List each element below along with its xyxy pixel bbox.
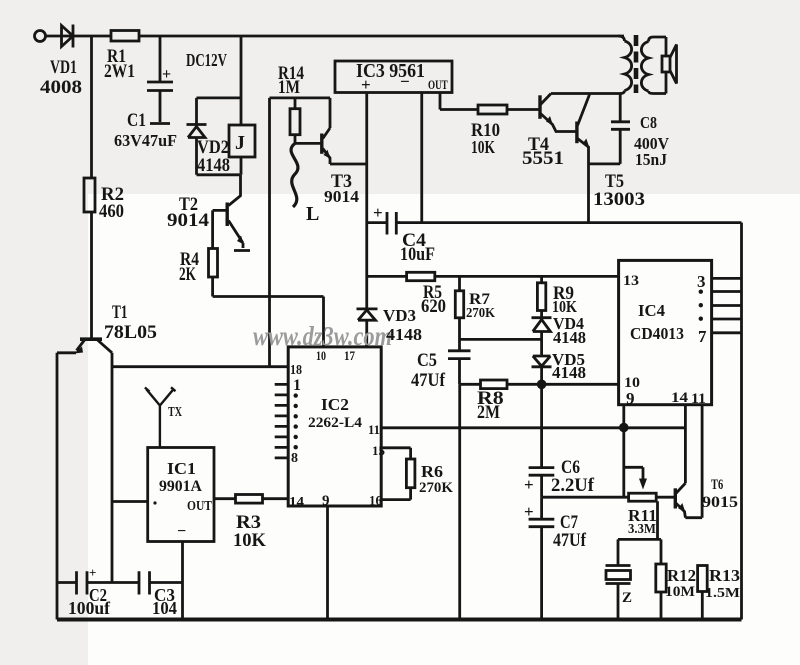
- svg-text:4008: 4008: [40, 77, 82, 98]
- svg-text:1.5M: 1.5M: [705, 586, 740, 601]
- svg-text:T1: T1: [112, 301, 128, 323]
- svg-text:270K: 270K: [419, 480, 453, 496]
- svg-text:16: 16: [369, 493, 382, 509]
- svg-text:11: 11: [368, 423, 380, 437]
- svg-text:−: −: [177, 523, 186, 540]
- svg-text:47Uf: 47Uf: [411, 369, 446, 390]
- svg-text:CD4013: CD4013: [630, 323, 684, 343]
- svg-text:15nJ: 15nJ: [635, 149, 667, 169]
- svg-text:L: L: [306, 203, 319, 225]
- svg-text:9: 9: [322, 493, 330, 509]
- svg-text:13003: 13003: [593, 189, 645, 210]
- svg-text:10K: 10K: [471, 138, 496, 157]
- svg-text:9015: 9015: [702, 493, 738, 511]
- svg-text:9: 9: [626, 389, 635, 408]
- svg-text:3.3M: 3.3M: [628, 520, 656, 536]
- svg-text:IC2: IC2: [321, 395, 349, 414]
- svg-text:T6: T6: [711, 475, 724, 492]
- svg-text:14: 14: [671, 390, 688, 406]
- svg-text:10M: 10M: [665, 583, 695, 600]
- svg-text:3: 3: [697, 272, 706, 291]
- svg-text:104: 104: [152, 598, 177, 618]
- svg-text:620: 620: [421, 295, 446, 316]
- svg-text:1: 1: [293, 377, 301, 394]
- svg-text:4148: 4148: [386, 324, 422, 343]
- svg-text:11: 11: [691, 390, 706, 407]
- svg-text:Z: Z: [622, 590, 632, 606]
- svg-text:R10: R10: [471, 119, 500, 140]
- svg-text:−: −: [400, 72, 410, 91]
- svg-text:270K: 270K: [466, 304, 496, 320]
- svg-text:4148: 4148: [553, 328, 586, 347]
- svg-text:+: +: [162, 66, 171, 83]
- svg-text:R13: R13: [709, 565, 740, 584]
- svg-text:9014: 9014: [324, 187, 359, 206]
- svg-text:R12: R12: [667, 566, 696, 585]
- svg-text:5551: 5551: [522, 148, 564, 169]
- svg-text:+: +: [361, 75, 371, 94]
- svg-text:10K: 10K: [233, 530, 266, 551]
- svg-text:4148: 4148: [197, 154, 230, 175]
- svg-text:78L05: 78L05: [104, 322, 157, 343]
- svg-text:TX: TX: [168, 403, 182, 419]
- svg-text:C1: C1: [127, 110, 146, 131]
- svg-text:C8: C8: [640, 114, 657, 133]
- svg-text:1M: 1M: [278, 76, 300, 97]
- svg-text:IC4: IC4: [638, 301, 666, 320]
- svg-text:7: 7: [698, 327, 707, 346]
- svg-text:OUT: OUT: [187, 498, 212, 513]
- svg-text:2M: 2M: [477, 401, 500, 423]
- svg-text:R6: R6: [421, 461, 443, 480]
- svg-text:18: 18: [290, 361, 302, 377]
- svg-text:C5: C5: [417, 349, 437, 370]
- svg-text:+: +: [89, 565, 96, 580]
- svg-text:IC1: IC1: [167, 458, 196, 477]
- svg-text:460: 460: [99, 200, 124, 221]
- svg-text:9014: 9014: [167, 210, 209, 231]
- svg-text:15: 15: [372, 443, 386, 458]
- svg-text:9901A: 9901A: [159, 478, 202, 495]
- svg-text:8: 8: [291, 451, 298, 466]
- svg-text:4148: 4148: [552, 363, 586, 382]
- svg-text:2W1: 2W1: [104, 61, 135, 82]
- svg-text:2.2Uf: 2.2Uf: [551, 475, 595, 496]
- svg-text:VD1: VD1: [50, 56, 77, 78]
- svg-text:100uf: 100uf: [68, 598, 111, 618]
- svg-text:www.dz3w.com: www.dz3w.com: [253, 322, 392, 351]
- svg-text:63V47uF: 63V47uF: [114, 131, 177, 150]
- svg-text:+: +: [524, 475, 534, 494]
- svg-text:+: +: [373, 203, 383, 222]
- svg-text:14: 14: [289, 494, 304, 509]
- svg-text:OUT: OUT: [428, 79, 448, 93]
- svg-text:J: J: [235, 132, 245, 154]
- svg-text:VD3: VD3: [383, 306, 416, 325]
- svg-text:+: +: [524, 502, 534, 521]
- svg-text:47Uf: 47Uf: [553, 529, 587, 551]
- svg-text:2262-L4: 2262-L4: [308, 414, 362, 431]
- svg-text:10uF: 10uF: [400, 243, 435, 265]
- svg-text:2K: 2K: [179, 263, 196, 285]
- svg-text:13: 13: [623, 272, 639, 288]
- svg-text:DC12V: DC12V: [186, 51, 228, 71]
